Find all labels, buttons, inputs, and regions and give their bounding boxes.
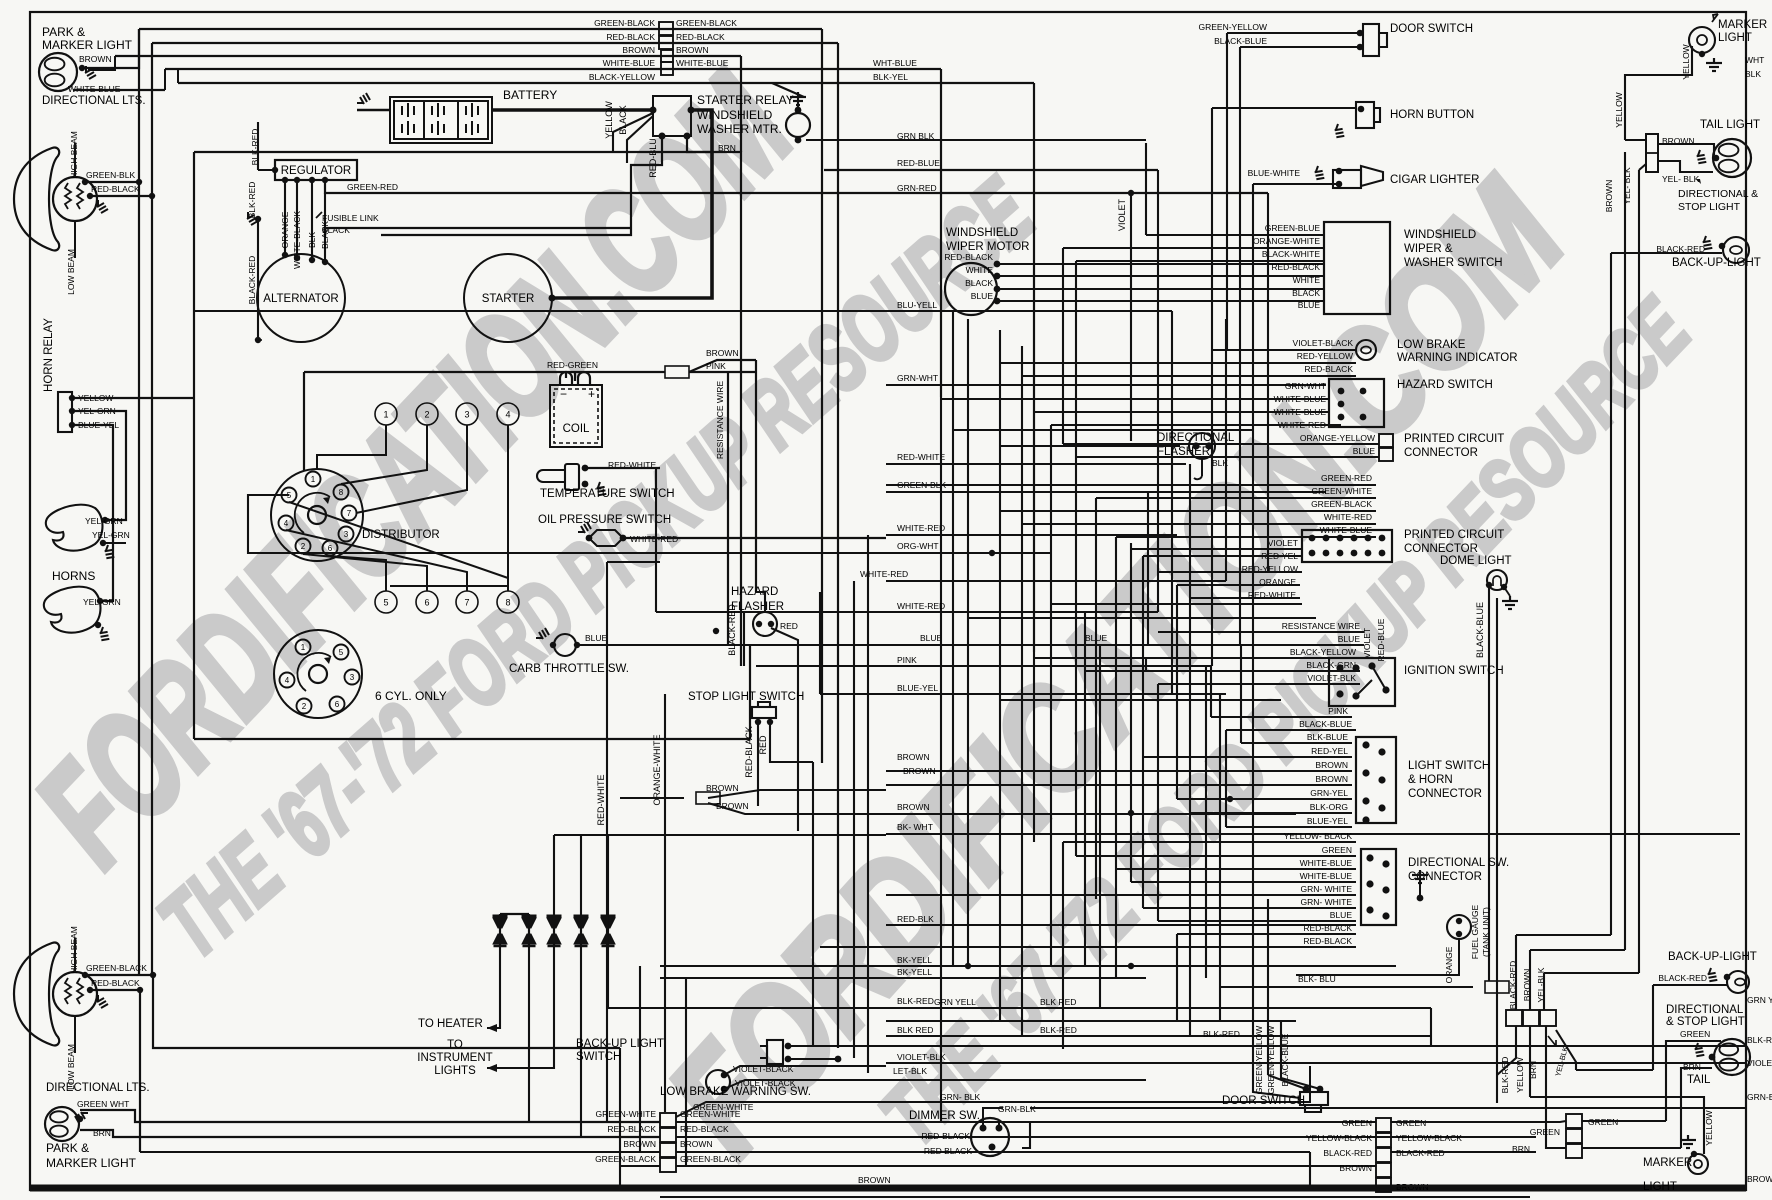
headlight top filaments	[65, 183, 83, 209]
svg-text:LOW BRAKE WARNING SW.: LOW BRAKE WARNING SW.	[660, 1086, 811, 1098]
wire red-yel pc2	[1143, 555, 1302, 557]
svg-text:PRINTED CIRCUIT: PRINTED CIRCUIT	[1404, 529, 1504, 541]
svg-text:GREEN-BLACK: GREEN-BLACK	[1311, 499, 1372, 509]
svg-text:RED-BLU: RED-BLU	[648, 138, 658, 178]
svg-text:BLACK: BLACK	[618, 105, 628, 135]
svg-text:MARKER: MARKER	[1718, 19, 1767, 31]
svg-text:BRN: BRN	[1512, 1144, 1530, 1154]
svg-text:BACK-UP LIGHT: BACK-UP LIGHT	[576, 1038, 664, 1050]
svg-text:GREEN-BLACK: GREEN-BLACK	[594, 18, 655, 28]
carb throttle switch	[554, 634, 576, 656]
svg-text:WHT: WHT	[110, 1099, 129, 1109]
junction	[150, 972, 156, 978]
wire vertical x813	[812, 762, 814, 1047]
svg-text:INSTRUMENT: INSTRUMENT	[417, 1052, 492, 1064]
junction	[1192, 442, 1199, 449]
junction	[756, 621, 762, 627]
wire to heater	[487, 947, 500, 1028]
directional sw pin	[1366, 906, 1373, 913]
wire low beam stub bottom	[74, 1016, 76, 1053]
svg-text:ORANGE: ORANGE	[1444, 946, 1454, 983]
wire blue-white cigar	[1253, 183, 1339, 185]
wire violet-blk ign	[1158, 683, 1360, 685]
wire black vertical	[324, 193, 326, 262]
distributor pin 3	[339, 527, 354, 542]
svg-text:GRN-RED: GRN-RED	[897, 183, 937, 193]
junction	[989, 550, 995, 556]
wire vertical x1131 lower	[1130, 543, 1132, 882]
svg-text:RED-BLACK: RED-BLACK	[680, 1124, 729, 1134]
directional sw pin	[1366, 880, 1373, 887]
back-up light bottom	[1727, 971, 1749, 993]
svg-text:LOW BRAKE: LOW BRAKE	[1397, 339, 1466, 351]
wire green-yellow drop1	[1267, 899, 1269, 1075]
ground horn button	[1333, 124, 1348, 140]
svg-text:YELLOW- BLACK: YELLOW- BLACK	[1284, 831, 1353, 841]
printed circuit connector2 box	[1302, 530, 1392, 562]
svg-text:BLK-BLUE: BLK-BLUE	[1307, 732, 1348, 742]
svg-text:BROWN: BROWN	[622, 45, 655, 55]
svg-text:GRN- WHITE: GRN- WHITE	[1301, 884, 1353, 894]
svg-text:WINDSHIELD: WINDSHIELD	[946, 227, 1018, 239]
directional sw pin	[1382, 886, 1389, 893]
ground battery	[357, 93, 370, 104]
pc2 pin bottom	[1323, 550, 1330, 557]
starter relay box	[653, 96, 691, 136]
svg-text:BLACK-GRN: BLACK-GRN	[1306, 660, 1356, 670]
svg-text:RED-BLACK: RED-BLACK	[91, 184, 140, 194]
wire y1021	[886, 1020, 1296, 1022]
svg-text:BROWN: BROWN	[858, 1175, 891, 1185]
svg-text:WINDSHIELD: WINDSHIELD	[1404, 229, 1476, 241]
wire white wiper	[997, 275, 1324, 277]
wire white-red oil	[623, 537, 886, 539]
directional sw connector box	[1361, 849, 1396, 925]
wire green-yellow diag1	[1268, 1075, 1306, 1089]
connector C cell3	[1566, 1144, 1582, 1158]
bundle connector c	[1540, 1010, 1556, 1026]
marker light bottom	[1688, 1154, 1708, 1174]
svg-text:LIGHT: LIGHT	[1643, 1181, 1677, 1193]
svg-text:WHITE: WHITE	[966, 265, 994, 275]
svg-text:RED: RED	[780, 621, 798, 631]
connector A cell1	[660, 1113, 676, 1127]
wire vertical x1226 lower	[1225, 730, 1227, 827]
distributor pin 4	[279, 516, 294, 531]
wire trunk left y1166	[620, 1165, 660, 1167]
svg-text:BROWN: BROWN	[1339, 1163, 1372, 1173]
junction	[1317, 1086, 1324, 1093]
horn lower	[44, 587, 101, 633]
svg-text:YELLOW: YELLOW	[1704, 1110, 1714, 1145]
pc2 pin top	[1337, 535, 1344, 542]
svg-text:FUSIBLE LINK: FUSIBLE LINK	[322, 213, 379, 223]
wire resistance r	[1158, 631, 1364, 633]
junction	[721, 1086, 728, 1093]
wire fuse4 down	[580, 947, 582, 1137]
light switch pin	[1378, 776, 1385, 783]
svg-text:WASHER SWITCH: WASHER SWITCH	[1404, 257, 1503, 269]
svg-text:+: +	[588, 387, 595, 401]
wire red-yellow pc2	[1158, 571, 1302, 573]
terminal 3	[456, 403, 478, 425]
directional sw pin	[1382, 860, 1389, 867]
svg-text:GREEN-BLUE: GREEN-BLUE	[1265, 223, 1321, 233]
wire blue pc1	[1076, 456, 1379, 458]
junction	[549, 295, 556, 302]
ground park top	[85, 66, 96, 79]
wire yellow marker bottom	[1530, 1097, 1704, 1154]
svg-text:CARB THROTTLE SW.: CARB THROTTLE SW.	[509, 663, 629, 675]
wire	[257, 339, 259, 341]
marker light top	[1689, 27, 1715, 53]
junction	[989, 1144, 996, 1151]
wire vertical x1076	[1075, 261, 1077, 457]
resistor blk-blu	[1485, 981, 1509, 993]
junction	[294, 177, 300, 183]
wire yellow marker down	[1625, 46, 1692, 140]
pc2 pin top	[1365, 535, 1372, 542]
wire orange-white	[1063, 247, 1324, 249]
svg-text:TAIL: TAIL	[1687, 1074, 1711, 1086]
junction	[1699, 51, 1705, 57]
wire red-yellow lowbrake	[1000, 362, 1356, 364]
ignition switch box	[1329, 658, 1395, 706]
svg-text:GREEN-WHITE: GREEN-WHITE	[596, 1109, 657, 1119]
alternator	[257, 254, 345, 342]
svg-text:BROWN: BROWN	[1315, 760, 1348, 770]
junction	[994, 298, 1001, 305]
junction	[255, 337, 261, 343]
svg-text:& STOP LIGHT: & STOP LIGHT	[1666, 1016, 1745, 1028]
junction	[1128, 810, 1134, 816]
wire bk-yell 1	[660, 965, 1396, 967]
svg-text:STARTER: STARTER	[482, 293, 535, 305]
svg-text:PARK &: PARK &	[46, 1141, 89, 1155]
hazard flasher	[753, 612, 777, 636]
svg-text:YEL-GRN: YEL-GRN	[85, 516, 123, 526]
svg-text:MARKER: MARKER	[1643, 1157, 1692, 1169]
wire red-green down	[303, 372, 305, 470]
svg-text:BLK-ORG: BLK-ORG	[1310, 802, 1348, 812]
door switch bottom symbol	[1300, 1092, 1328, 1112]
wire brown ls1	[886, 770, 1352, 772]
wire vertical x1220b	[1219, 987, 1221, 1021]
stop light switch symbol	[752, 702, 776, 718]
svg-text:LIGHTS: LIGHTS	[434, 1065, 476, 1077]
svg-text:1: 1	[311, 475, 316, 484]
wire red hazard flasher	[771, 628, 798, 831]
svg-text:STARTER RELAY: STARTER RELAY	[697, 93, 794, 107]
ground temp switch	[595, 482, 610, 498]
pc2 pin top	[1309, 535, 1316, 542]
wire trunk brown y1152	[676, 1151, 1310, 1153]
wire brn dir	[1681, 1068, 1712, 1148]
wire vertical x1063	[1062, 248, 1064, 444]
junction	[82, 179, 88, 185]
backup top inner	[1730, 246, 1742, 254]
wire vertical x1158	[1157, 170, 1159, 612]
wire vertical x1076 lower	[1075, 457, 1077, 856]
svg-text:BLUE: BLUE	[971, 291, 994, 301]
svg-text:RED-BLK: RED-BLK	[897, 914, 934, 924]
svg-text:GREEN: GREEN	[1342, 1118, 1372, 1128]
wire yel-grn horn jumper	[103, 542, 126, 544]
junction	[713, 628, 719, 634]
distributor center	[308, 506, 326, 524]
directional sw pin	[1382, 912, 1389, 919]
ground horn lower	[98, 627, 113, 643]
svg-text:BROWN: BROWN	[706, 783, 739, 793]
inline connector x529	[522, 915, 537, 947]
svg-text:RED-BLUE: RED-BLUE	[897, 158, 940, 168]
svg-text:BLUE: BLUE	[1353, 446, 1376, 456]
wire backup switch 2	[788, 1058, 838, 1060]
wire yel-blk diag	[1556, 1030, 1576, 1070]
wire vertical x656 temp	[655, 468, 657, 612]
wire black-blu vertical x1497	[1496, 598, 1498, 1103]
junction	[149, 193, 155, 199]
wire relay brn x741	[687, 136, 741, 666]
bundle connector b	[1523, 1010, 1539, 1026]
wire red-black lowbrake	[1022, 375, 1356, 377]
yel-blk arrow2	[1548, 1036, 1556, 1046]
wire white-black vertical	[296, 180, 298, 258]
svg-text:CONNECTOR: CONNECTOR	[1408, 788, 1482, 800]
low brake warning indicator	[1356, 340, 1376, 360]
wire terminal3	[356, 425, 467, 513]
wire black-blue dome vertical	[1488, 585, 1490, 981]
svg-text:BLUE: BLUE	[585, 633, 608, 643]
wire white-red r	[1022, 523, 1376, 525]
wire vertical x1206	[1205, 666, 1207, 978]
svg-text:PINK: PINK	[1328, 706, 1348, 716]
wire vertical x1431	[1430, 1008, 1432, 1046]
wire red-black trunk	[152, 42, 838, 44]
junction	[768, 621, 774, 627]
wire brown tail	[1658, 144, 1714, 155]
svg-text:RED-YELLOW: RED-YELLOW	[1297, 351, 1353, 361]
wire coil stub	[574, 372, 576, 381]
wire orange-yellow pc1	[1063, 443, 1379, 445]
wire brown down x741	[740, 56, 742, 152]
svg-text:ALTERNATOR: ALTERNATOR	[263, 293, 338, 305]
wire black-red vertical x1653	[1652, 985, 1654, 1070]
svg-text:BLK-RED: BLK-RED	[1203, 1029, 1240, 1039]
junction	[835, 1056, 842, 1063]
svg-text:RED-WHITE: RED-WHITE	[596, 775, 606, 826]
windshield wiper washer switch box	[1324, 222, 1390, 314]
svg-text:BLACK-YELLOW: BLACK-YELLOW	[589, 72, 655, 82]
svg-text:RED-GREEN: RED-GREEN	[547, 360, 598, 370]
wire blk-yel vertical x1034	[1033, 83, 1035, 652]
junction	[688, 107, 695, 114]
connector C cell1	[1566, 1114, 1582, 1128]
wire blue-yel horn relay	[72, 425, 113, 601]
inline resistor brown	[696, 792, 720, 804]
park & marker light bottom	[45, 1107, 79, 1141]
junction	[1358, 106, 1365, 113]
wire blk-org ls	[1190, 812, 1352, 814]
wire violet-blk mid	[886, 1062, 1745, 1064]
light switch pin	[1378, 748, 1385, 755]
distributor	[271, 469, 363, 561]
svg-text:6: 6	[424, 598, 429, 608]
pc2 pin bottom	[1337, 550, 1344, 557]
wire green-white diag	[676, 1066, 1310, 1117]
temperature switch bulb	[537, 464, 579, 490]
wire grn-blk bottom	[1030, 1107, 1745, 1109]
wire yellow down	[1529, 1026, 1531, 1097]
bottom heavy border	[30, 1185, 1746, 1192]
svg-text:VIOLET-BLK: VIOLET-BLK	[1307, 673, 1356, 683]
wire green into C	[1391, 1121, 1566, 1122]
junction	[785, 1043, 792, 1050]
wire vertical x620	[619, 1048, 621, 1186]
wire vertical x1268	[1267, 193, 1269, 572]
inline connector x581	[574, 915, 589, 947]
svg-text:BACK-UP-LIGHT: BACK-UP-LIGHT	[1668, 951, 1757, 963]
svg-text:COIL: COIL	[563, 423, 590, 435]
svg-text:RED-BLACK: RED-BLACK	[606, 32, 655, 42]
svg-text:FLASHER: FLASHER	[1157, 446, 1210, 458]
svg-text:GREEN-BLACK: GREEN-BLACK	[676, 18, 737, 28]
svg-text:ORANGE-YELLOW: ORANGE-YELLOW	[1300, 433, 1375, 443]
wire red-green	[304, 371, 665, 373]
junction	[1303, 1086, 1310, 1093]
connector A cell2	[660, 1128, 676, 1142]
wire horn button	[1212, 107, 1357, 109]
wire black-blue into door switch	[1253, 1080, 1300, 1098]
svg-text:BROWN: BROWN	[897, 752, 930, 762]
svg-text:5: 5	[383, 598, 388, 608]
svg-text:VIOLET: VIOLET	[1362, 628, 1372, 658]
svg-text:3: 3	[350, 673, 355, 682]
svg-text:GRN-BLK: GRN-BLK	[1747, 1092, 1772, 1102]
svg-text:GREEN-YELLOW: GREEN-YELLOW	[1254, 1026, 1264, 1095]
svg-text:LET-BLK: LET-BLK	[893, 1066, 927, 1076]
back-up light switch symbol	[760, 1040, 783, 1064]
svg-text:GREEN-WHITE: GREEN-WHITE	[680, 1109, 741, 1119]
windshield washer motor	[786, 113, 810, 137]
svg-text:HORN BUTTON: HORN BUTTON	[1390, 109, 1474, 121]
svg-text:8: 8	[339, 488, 344, 497]
junction	[136, 179, 142, 185]
junction	[272, 167, 278, 173]
svg-text:ORANGE: ORANGE	[280, 211, 290, 248]
wire blk-red regulator stub	[258, 169, 275, 171]
hazard switch pin	[1338, 401, 1345, 408]
inline connector x608	[601, 915, 616, 947]
distributor6 pin 2	[297, 699, 312, 714]
svg-text:CONNECTOR: CONNECTOR	[1404, 543, 1478, 555]
wire trunk green-black y1166	[676, 1165, 1376, 1167]
headlight bottom lens	[14, 943, 59, 1046]
wire black-blue vertical x1240	[1239, 47, 1241, 645]
wire pink to flasher	[756, 592, 765, 612]
svg-text:MARKER LIGHT: MARKER LIGHT	[46, 1156, 137, 1170]
inline connector x500	[493, 915, 508, 947]
svg-text:3: 3	[464, 410, 469, 420]
wire white-blue2 ds	[1131, 881, 1356, 883]
svg-text:BROWN: BROWN	[680, 1139, 713, 1149]
oil pressure switch hex	[589, 530, 623, 546]
svg-text:RED-BLACK: RED-BLACK	[676, 32, 725, 42]
wire trunk left x139 lower	[138, 182, 140, 975]
yel-blk arrow	[1696, 179, 1701, 184]
distributor6 pin 5	[334, 645, 349, 660]
connector B cell5	[1376, 1178, 1391, 1192]
wire box right stub	[749, 645, 751, 739]
junction	[582, 481, 589, 488]
ground park bottom	[75, 1112, 88, 1123]
svg-text:BROWN: BROWN	[897, 802, 930, 812]
regulator box	[275, 160, 357, 180]
distributor6 pin 3	[345, 670, 360, 685]
wire dimmer stub	[998, 1122, 1000, 1128]
wire white-blue r	[1116, 536, 1376, 538]
wire orange fuel	[1296, 939, 1459, 975]
svg-text:VIOLET-BLK: VIOLET-BLK	[897, 1052, 946, 1062]
ignition pin	[1336, 690, 1343, 697]
wire high beam stub bottom	[74, 938, 76, 972]
headlight bottom bulb	[53, 972, 97, 1016]
wire vertical x1034 lower	[1033, 652, 1035, 842]
wire grn-wht	[886, 384, 1326, 386]
junction	[1713, 155, 1720, 162]
svg-text:WHITE-RED: WHITE-RED	[1324, 512, 1372, 522]
wire vertical x1211 lower	[1210, 666, 1212, 717]
junction	[69, 422, 75, 428]
svg-text:GREEN-RED: GREEN-RED	[1321, 473, 1372, 483]
ground washer motor	[790, 92, 806, 105]
tail conn divider	[1646, 152, 1658, 154]
tail light connector	[1646, 134, 1658, 172]
wire brown trunk	[115, 55, 741, 57]
junction	[137, 987, 143, 993]
junction	[1128, 963, 1134, 969]
pc2 pin top	[1323, 535, 1330, 542]
svg-text:GREEN: GREEN	[77, 1099, 107, 1109]
headlight top lens	[14, 148, 59, 251]
arrow to instrument	[487, 1064, 497, 1072]
svg-text:DOME LIGHT: DOME LIGHT	[1440, 555, 1512, 567]
pc2 pin top	[1351, 535, 1358, 542]
wire backup switch 1	[788, 1045, 1745, 1047]
ignition pin	[1352, 664, 1359, 671]
wire trunk left x139	[138, 29, 140, 182]
wire y618	[968, 617, 1316, 619]
svg-text:VIOLET: VIOLET	[1268, 538, 1298, 548]
wire distributor box left	[193, 398, 195, 739]
svg-text:WHITE-RED: WHITE-RED	[897, 523, 945, 533]
svg-text:BLK-RED: BLK-RED	[1500, 1057, 1510, 1094]
svg-text:GREEN-RED: GREEN-RED	[347, 182, 398, 192]
wire green-blk headlight top	[85, 181, 139, 183]
wire white-blue hazard	[941, 398, 1329, 400]
pc2 pin bottom	[1379, 550, 1386, 557]
wire blue-yel ls	[1226, 826, 1352, 828]
wire	[258, 339, 262, 341]
svg-text:WHITE-BLUE: WHITE-BLUE	[676, 58, 729, 68]
wire stub	[1145, 228, 1147, 235]
ground marker top	[1706, 58, 1722, 71]
wire bk-yell 2	[660, 977, 1146, 979]
svg-text:MARKER LIGHT: MARKER LIGHT	[42, 38, 133, 52]
dimmer bracket	[1022, 1122, 1030, 1148]
wire black-red backup top	[1611, 252, 1722, 254]
wire red-white center	[886, 463, 1186, 465]
